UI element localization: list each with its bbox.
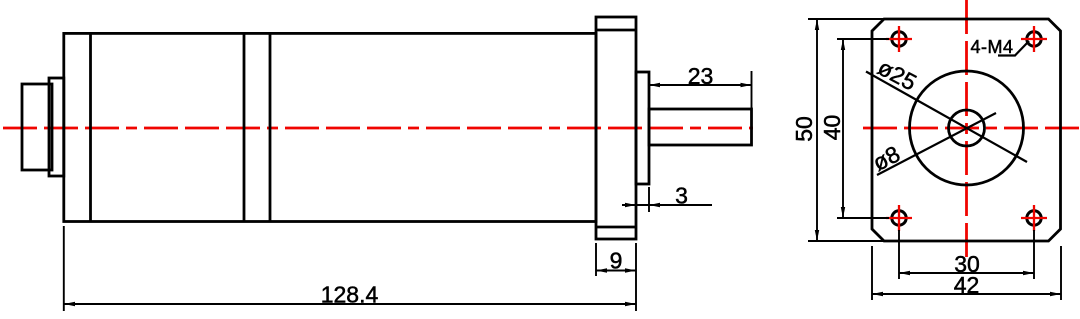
svg-text:23: 23	[688, 63, 714, 89]
svg-text:4-M4: 4-M4	[970, 37, 1013, 57]
svg-text:9: 9	[610, 248, 623, 274]
svg-text:3: 3	[675, 183, 688, 209]
svg-text:40: 40	[819, 115, 845, 141]
svg-text:42: 42	[954, 272, 980, 298]
svg-text:50: 50	[791, 116, 817, 142]
svg-text:128.4: 128.4	[321, 282, 379, 308]
